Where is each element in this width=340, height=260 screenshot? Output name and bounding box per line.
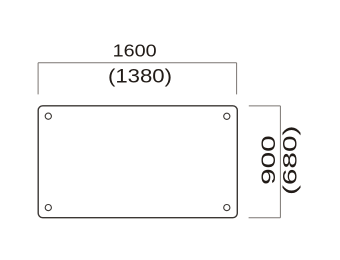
svg-text:1600: 1600	[113, 40, 157, 60]
svg-text:(1380): (1380)	[108, 66, 172, 87]
svg-text:900: 900	[259, 135, 280, 185]
svg-text:(680): (680)	[281, 126, 302, 196]
